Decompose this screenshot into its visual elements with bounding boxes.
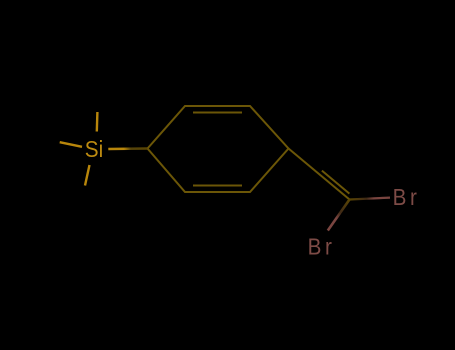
svg-text:Br: Br [308, 233, 336, 259]
svg-text:Br: Br [393, 184, 421, 210]
svg-text:Si: Si [85, 136, 103, 162]
